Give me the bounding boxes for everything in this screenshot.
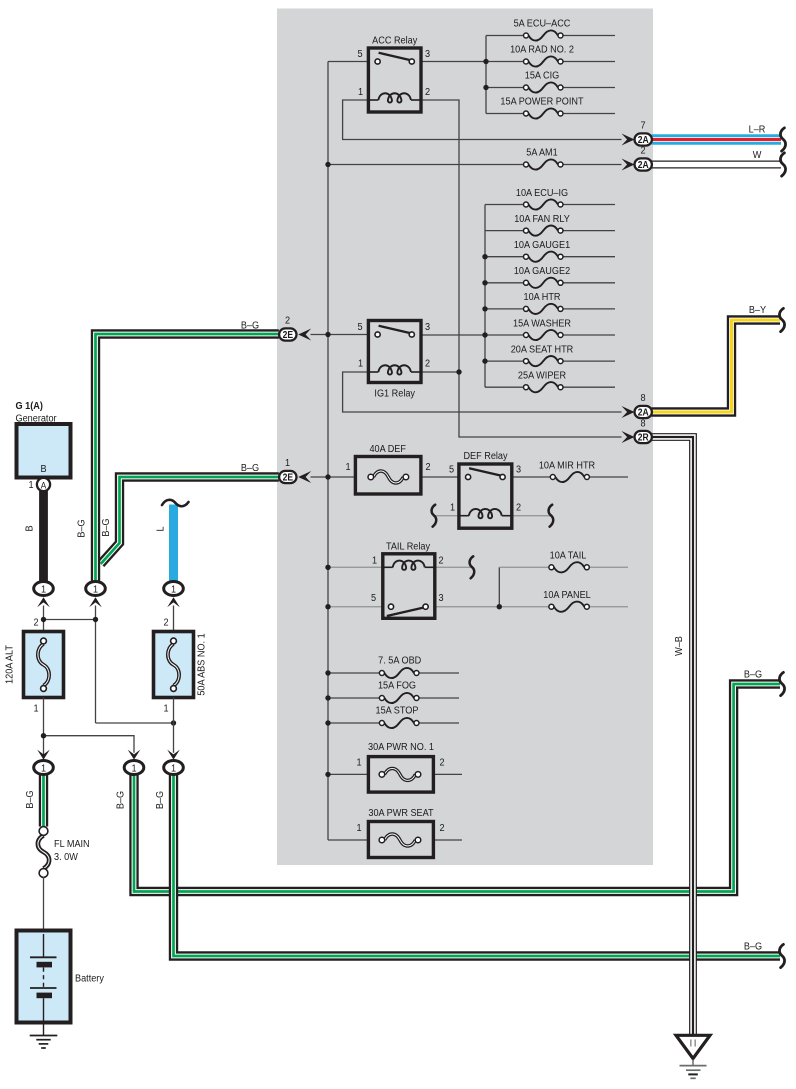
svg-text:10A GAUGE1: 10A GAUGE1 — [514, 239, 570, 251]
svg-text:1: 1 — [450, 502, 455, 514]
svg-text:W: W — [753, 149, 762, 161]
svg-text:3: 3 — [425, 321, 431, 333]
svg-text:1: 1 — [171, 584, 176, 596]
svg-text:IG1 Relay: IG1 Relay — [374, 388, 415, 400]
DEF Relay body — [459, 464, 512, 528]
fuse 20A SEAT HTR — [529, 356, 559, 366]
ACC Relay switch contacts — [379, 53, 411, 61]
svg-text:2: 2 — [438, 555, 443, 567]
svg-text:ACC Relay: ACC Relay — [372, 35, 417, 47]
wire ACC pin3 to fuse bank bus — [421, 61, 486, 63]
connector 2A pin 2 — [622, 159, 635, 171]
svg-text:B–G: B–G — [115, 791, 127, 809]
ground triangle W-B — [676, 1035, 710, 1058]
brace L-R — [780, 128, 785, 151]
svg-text:5A AM1: 5A AM1 — [526, 147, 557, 159]
svg-text:1: 1 — [358, 86, 363, 98]
wire W-B from 2R to ground — [652, 437, 694, 1034]
fuse 7.5A OBD — [384, 668, 414, 678]
wire DEF relay pin3 to 10A MIR HTR — [512, 476, 550, 478]
svg-text:7: 7 — [640, 120, 645, 132]
wire ACC pin2 down to connector 2R — [421, 100, 622, 437]
svg-text:1: 1 — [345, 461, 350, 473]
wire B-G mid to right top branch — [134, 684, 780, 892]
svg-text:2: 2 — [425, 358, 430, 370]
wire 30A PWR SEAT stubs — [328, 839, 368, 841]
fuse 15A CIG — [529, 82, 559, 92]
wire B-G from 2E-2 to connector 1 — [96, 334, 279, 583]
svg-text:B: B — [40, 463, 46, 475]
svg-text:B–G: B–G — [744, 941, 762, 953]
junction dot PANEL node — [497, 604, 502, 609]
fuse 30A PWR SEAT body — [368, 822, 433, 858]
wire row 25A WIPER — [485, 386, 523, 388]
wire TAIL relay pin2 to break — [435, 566, 471, 568]
svg-text:5A ECU–ACC: 5A ECU–ACC — [514, 18, 571, 30]
svg-text:Battery: Battery — [75, 973, 104, 985]
svg-text:B–G: B–G — [744, 669, 762, 681]
svg-text:5: 5 — [357, 48, 363, 60]
svg-text:3: 3 — [425, 48, 431, 60]
svg-text:W–B: W–B — [673, 636, 685, 656]
svg-text:2E: 2E — [283, 471, 293, 483]
wire row 15A WASHER — [485, 334, 523, 336]
wire oval to 50A ABS — [173, 606, 175, 632]
wire B-Y to cowl — [652, 320, 781, 412]
svg-text:8: 8 — [640, 418, 646, 430]
svg-text:10A PANEL: 10A PANEL — [543, 589, 591, 601]
wire B-G column to ABS column link — [96, 722, 174, 724]
fuse 5A ECU-ACC — [529, 30, 559, 40]
wire row 10A ECU-IG — [485, 204, 523, 206]
svg-text:2: 2 — [285, 315, 290, 327]
connector 2A pin 8 — [622, 406, 635, 418]
wire L (blue) from break to connector — [169, 505, 178, 584]
fuse 10A GAUGE1 — [529, 252, 559, 262]
fuse 10A TAIL — [554, 562, 584, 572]
wire TAIL relay pin3 to node — [435, 606, 500, 608]
IG1 Relay coil — [368, 371, 378, 373]
wire TAIL relay pin1 stub — [328, 566, 383, 568]
svg-text:1: 1 — [131, 763, 136, 775]
svg-text:FL MAIN: FL MAIN — [54, 838, 90, 850]
wire oval B-G column down — [95, 606, 97, 724]
wire 10A PANEL row — [499, 606, 548, 608]
wire row 15A STOP — [328, 722, 379, 724]
svg-text:25A WIPER: 25A WIPER — [518, 370, 566, 382]
junction dots ACC fuse bus — [483, 59, 488, 64]
connector oval 1 lower left — [34, 761, 54, 775]
svg-text:G 1(A): G 1(A) — [16, 400, 43, 412]
svg-text:B–G: B–G — [154, 791, 166, 809]
wire 30A PWR NO.1 stubs — [328, 773, 368, 775]
junction dot ALT branch — [41, 733, 46, 738]
svg-text:120A ALT: 120A ALT — [4, 645, 16, 684]
connector oval 1 lower right — [164, 761, 184, 775]
svg-text:B–G: B–G — [241, 462, 259, 474]
svg-text:2A: 2A — [638, 158, 649, 170]
fuse 10A HTR — [529, 304, 559, 314]
svg-text:15A FOG: 15A FOG — [378, 680, 416, 692]
wire ALT pin1 down to battery — [43, 698, 45, 761]
svg-text:5: 5 — [357, 321, 363, 333]
wire row 10A FAN RLY — [485, 230, 523, 232]
fuse 30A PWR NO.1 body — [368, 757, 433, 793]
wire IG1 pin2 to 2R bus — [421, 371, 459, 373]
svg-text:1: 1 — [28, 479, 33, 491]
svg-text:15A CIG: 15A CIG — [525, 70, 559, 82]
fusible link FL MAIN — [38, 835, 49, 868]
connector oval 1 lower mid — [124, 761, 144, 775]
wire DEF relay coil stubs — [433, 515, 459, 517]
svg-text:15A POWER POINT: 15A POWER POINT — [500, 96, 583, 108]
wire ACC pin5 stub — [328, 61, 368, 63]
wire L-R to cowl — [652, 134, 782, 144]
wire row 10A RAD NO. 2 — [486, 61, 523, 63]
connector 2R pin 8 — [622, 431, 635, 443]
svg-text:15A STOP: 15A STOP — [376, 705, 419, 717]
wire IG1 pin3 to fuse bank bus — [421, 334, 485, 336]
wire row 15A POWER POINT — [486, 113, 523, 115]
wire FL MAIN to battery — [43, 877, 45, 931]
svg-text:2A: 2A — [638, 133, 649, 145]
break mark TAIL pin2 — [470, 556, 475, 578]
svg-text:30A PWR SEAT: 30A PWR SEAT — [368, 807, 433, 819]
ground symbol W-B — [692, 1060, 694, 1066]
wire cross link — [44, 619, 96, 621]
wire 40A DEF pin2 to DEF relay pin5 — [421, 476, 459, 478]
junction block panel — [277, 9, 653, 866]
connector oval 1 (ABS column) — [164, 582, 184, 596]
battery body — [17, 931, 71, 1023]
connector oval 1 (B-G column) — [86, 582, 106, 596]
svg-text:TAIL Relay: TAIL Relay — [386, 541, 430, 553]
fuse 10A ECU-IG — [529, 199, 559, 209]
connector 2A pin 7 — [622, 134, 635, 146]
wire branch to mid oval — [44, 736, 135, 753]
fuse 10A PANEL — [554, 602, 584, 612]
wire connector 2E-1 to 40A DEF — [311, 476, 356, 478]
break mark DEF coil left — [432, 505, 437, 527]
wire B (black) generator to connector — [39, 491, 48, 584]
arrow into lower oval mid — [128, 750, 141, 760]
connector 2E pin 2 — [298, 329, 311, 341]
svg-text:10A GAUGE2: 10A GAUGE2 — [514, 266, 570, 278]
svg-text:20A SEAT HTR: 20A SEAT HTR — [511, 344, 574, 356]
wire row 10A HTR — [485, 308, 523, 310]
wire ACC fuse bank bus — [485, 36, 487, 114]
fuse 15A STOP — [384, 718, 414, 728]
svg-text:2: 2 — [33, 617, 38, 629]
svg-text:1: 1 — [33, 703, 38, 715]
svg-text:8: 8 — [640, 392, 646, 404]
arrow into lower oval left — [37, 750, 50, 760]
relay TAIL Relay switch contacts — [387, 608, 424, 617]
generator G1 body — [17, 424, 71, 478]
svg-text:1: 1 — [93, 584, 98, 596]
svg-text:1: 1 — [356, 757, 361, 769]
svg-text:5: 5 — [449, 464, 455, 476]
junction dots main bus — [325, 162, 330, 167]
svg-text:2R: 2R — [638, 431, 649, 443]
svg-text:3: 3 — [438, 592, 444, 604]
arrow into lower oval right — [167, 750, 180, 760]
svg-text:1: 1 — [356, 822, 361, 834]
ground below battery — [43, 1023, 45, 1036]
wire connector 2E-2 to IG1 pin5 — [311, 334, 369, 336]
arrow into oval B-G column — [89, 597, 102, 607]
wire TAIL relay pin5 stub — [328, 606, 383, 608]
fuse 10A GAUGE2 — [529, 278, 559, 288]
junction dot link right — [93, 617, 98, 622]
svg-text:2: 2 — [640, 145, 645, 157]
svg-text:5: 5 — [371, 592, 377, 604]
svg-text:B: B — [24, 525, 36, 531]
arrow into oval ABS column — [167, 597, 180, 607]
svg-text:3: 3 — [516, 464, 522, 476]
wire IG fuse bank bus — [484, 205, 486, 388]
ACC Relay body — [368, 48, 421, 112]
svg-text:10A MIR HTR: 10A MIR HTR — [539, 460, 595, 472]
svg-text:B–G: B–G — [76, 519, 88, 537]
svg-text:B–Y: B–Y — [749, 304, 767, 316]
fuse 5A AM1 — [529, 159, 559, 169]
fuse 10A MIR HTR — [555, 472, 584, 482]
wire ABS pin1 down — [173, 698, 175, 753]
IG1 Relay body — [368, 321, 421, 383]
relay TAIL Relay coil — [383, 566, 393, 568]
brace B-G lower — [779, 944, 784, 967]
wire 5A AM1 row — [328, 164, 523, 166]
wire row 5A ECU-ACC — [486, 35, 523, 37]
wire B-G branch from 2E-1 — [101, 477, 279, 564]
junction dot IG1 pin2 node — [456, 369, 461, 374]
fuse 15A FOG — [384, 693, 414, 703]
svg-text:2: 2 — [516, 502, 521, 514]
svg-text:10A TAIL: 10A TAIL — [550, 550, 587, 562]
connector oval 1 (ALT column) — [34, 582, 54, 596]
svg-text:2: 2 — [439, 757, 444, 769]
break mark DEF coil right — [549, 505, 554, 527]
svg-text:DEF Relay: DEF Relay — [463, 450, 507, 462]
junction dot link left — [41, 617, 46, 622]
fuse 50A ABS NO.1 body — [154, 632, 194, 698]
fuse 10A RAD NO. 2 — [529, 56, 559, 66]
svg-text:2A: 2A — [638, 406, 649, 418]
svg-text:2: 2 — [425, 86, 430, 98]
svg-text:B–G: B–G — [24, 790, 36, 808]
wire IG1 pin1 to connector 2A pin8 — [343, 372, 622, 412]
brace B-G upper — [779, 672, 784, 695]
wire 10A TAIL row — [499, 566, 548, 568]
DEF Relay switch contacts — [469, 468, 502, 476]
junction dot ABS link — [171, 720, 176, 725]
svg-text:10A ECU–IG: 10A ECU–IG — [516, 187, 568, 199]
svg-text:1: 1 — [41, 584, 46, 596]
svg-text:1: 1 — [171, 763, 176, 775]
svg-text:10A FAN RLY: 10A FAN RLY — [514, 213, 570, 225]
DEF Relay coil — [459, 515, 469, 517]
svg-text:B–G: B–G — [241, 320, 259, 332]
svg-text:1: 1 — [372, 555, 377, 567]
svg-text:B–G: B–G — [100, 518, 112, 536]
IG1 Relay switch contacts — [379, 326, 411, 334]
svg-text:3. 0W: 3. 0W — [54, 851, 78, 863]
svg-text:2: 2 — [163, 617, 168, 629]
generator terminal A — [37, 478, 50, 491]
fuse 25A WIPER — [529, 382, 559, 392]
svg-text:2: 2 — [439, 822, 444, 834]
connector 2E pin 1 — [298, 471, 311, 483]
wire row 20A SEAT HTR — [485, 360, 523, 362]
svg-text:2E: 2E — [283, 328, 293, 340]
svg-text:40A DEF: 40A DEF — [369, 443, 406, 455]
wire B-G right to bottom right branch — [174, 768, 781, 957]
wire row 10A GAUGE1 — [485, 256, 523, 258]
svg-text:1: 1 — [358, 358, 363, 370]
svg-text:10A HTR: 10A HTR — [523, 292, 560, 304]
svg-text:50A ABS NO. 1: 50A ABS NO. 1 — [196, 633, 208, 695]
wire row 7.5A OBD — [328, 672, 379, 674]
svg-text:7. 5A OBD: 7. 5A OBD — [378, 655, 421, 667]
svg-text:L: L — [155, 526, 167, 532]
fuse 15A WASHER — [529, 330, 559, 340]
wire TAIL/PANEL feeder — [498, 567, 500, 606]
wire ACC pin1 to connector 2A pin7 — [343, 100, 622, 140]
battery internals — [43, 934, 45, 957]
brace B-Y — [779, 308, 784, 331]
brace W — [780, 153, 785, 176]
svg-text:L–R: L–R — [749, 124, 766, 136]
svg-text:1: 1 — [41, 763, 46, 775]
wire main left bus — [327, 62, 329, 841]
ACC Relay coil — [368, 99, 378, 101]
wire W to cowl — [652, 161, 782, 169]
svg-text:30A PWR NO. 1: 30A PWR NO. 1 — [368, 741, 434, 753]
svg-text:2: 2 — [425, 461, 430, 473]
fuse 10A FAN RLY — [529, 226, 559, 236]
fuse 40A DEF body — [355, 457, 421, 495]
arrow into oval ALT column — [37, 597, 50, 607]
wire row 10A GAUGE2 — [485, 282, 523, 284]
svg-text:15A WASHER: 15A WASHER — [513, 318, 571, 330]
svg-text:A: A — [41, 480, 47, 491]
wire oval to 120A ALT — [43, 606, 45, 632]
wire B-G short to FL MAIN — [39, 768, 48, 827]
junction dots IG fuse bus — [482, 254, 487, 259]
wire row 15A CIG — [486, 87, 523, 89]
fuse 15A POWER POINT — [529, 108, 559, 118]
wire row 15A FOG — [328, 697, 379, 699]
svg-text:1: 1 — [163, 703, 168, 715]
break mark above L wire — [162, 500, 189, 506]
svg-text:1: 1 — [285, 457, 290, 469]
relay TAIL Relay body — [383, 554, 435, 619]
svg-text:10A RAD NO. 2: 10A RAD NO. 2 — [510, 44, 574, 56]
fuse 120A ALT body — [24, 632, 64, 698]
